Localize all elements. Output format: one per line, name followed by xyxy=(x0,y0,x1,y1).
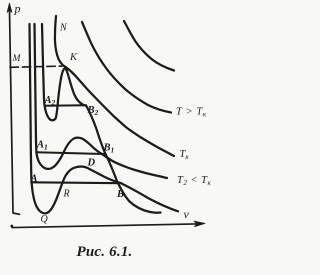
isotherm T1 left branch + loop A1 B1 xyxy=(35,24,168,178)
isotherm T greater than TK xyxy=(82,22,171,113)
svg-text:T > Tк: T > Tк xyxy=(176,107,207,119)
svg-text:B1: B1 xyxy=(103,143,115,155)
svg-text:K: K xyxy=(69,52,78,63)
tie line A B xyxy=(31,181,121,184)
svg-text:M: M xyxy=(12,54,22,64)
svg-text:Рис. 6.1.: Рис. 6.1. xyxy=(77,244,133,260)
isotherm T2 left branch + loop A Q R D B xyxy=(30,24,179,213)
svg-text:B2: B2 xyxy=(87,105,99,117)
van der Waals isotherms diagram xyxy=(0,0,228,275)
svg-text:p: p xyxy=(14,2,21,16)
tie line A1 B1 xyxy=(36,152,104,154)
svg-text:A1: A1 xyxy=(36,140,48,152)
svg-text:B: B xyxy=(116,189,124,200)
svg-text:R: R xyxy=(63,189,70,200)
svg-text:Q: Q xyxy=(41,214,49,225)
svg-text:Tк: Tк xyxy=(180,149,190,161)
critical isotherm N K TK xyxy=(55,16,174,156)
v axis arrowhead xyxy=(194,221,205,226)
p axis arrowhead xyxy=(7,3,12,13)
top right isotherm arc xyxy=(124,21,174,71)
p axis xyxy=(10,10,20,214)
svg-text:v: v xyxy=(184,207,190,221)
svg-text:T2 < Tк: T2 < Tк xyxy=(177,175,212,187)
dashed line M K xyxy=(10,66,62,67)
svg-text:A2: A2 xyxy=(44,95,56,107)
svg-text:A: A xyxy=(30,174,38,185)
svg-text:N: N xyxy=(59,23,68,34)
svg-text:D: D xyxy=(87,158,96,169)
v axis xyxy=(12,224,196,228)
axis left dot xyxy=(10,225,13,228)
tie line A2 B2 xyxy=(44,104,86,107)
isotherm A2 B2 left branch + loop xyxy=(42,24,161,213)
